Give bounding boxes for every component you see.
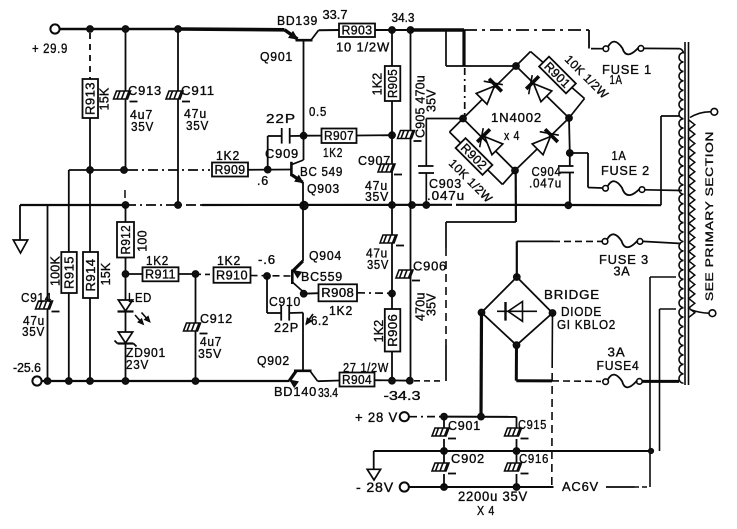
svg-text:GI KBLO2: GI KBLO2 xyxy=(557,317,616,332)
svg-text:BD139: BD139 xyxy=(277,13,318,28)
svg-text:15K: 15K xyxy=(98,87,112,110)
svg-text:22P: 22P xyxy=(274,320,299,335)
svg-text:-.6: -.6 xyxy=(258,253,276,267)
svg-text:33.4: 33.4 xyxy=(318,386,338,400)
svg-text:-25.6: -25.6 xyxy=(13,360,41,375)
svg-text:1K2: 1K2 xyxy=(217,254,241,268)
svg-text:C907: C907 xyxy=(358,153,391,168)
svg-text:C901: C901 xyxy=(448,418,481,433)
svg-text:23V: 23V xyxy=(126,357,149,372)
svg-text:C911: C911 xyxy=(181,83,215,98)
svg-text:1N4002: 1N4002 xyxy=(491,110,542,125)
svg-text:1K2: 1K2 xyxy=(372,320,386,343)
svg-text:R915: R915 xyxy=(62,256,76,289)
svg-text:1K2: 1K2 xyxy=(323,146,343,160)
svg-text:0.5: 0.5 xyxy=(309,105,327,119)
svg-text:1K2: 1K2 xyxy=(329,304,353,318)
svg-text:C914: C914 xyxy=(21,290,52,305)
svg-text:R907: R907 xyxy=(324,129,354,143)
svg-text:1A: 1A xyxy=(612,148,627,163)
svg-text:1K2: 1K2 xyxy=(146,254,169,268)
svg-text:C912: C912 xyxy=(200,311,233,326)
svg-text:33.7: 33.7 xyxy=(323,8,348,22)
svg-text:X 4: X 4 xyxy=(477,503,495,518)
svg-text:3A: 3A xyxy=(614,264,631,279)
svg-text:SEE PRIMARY SECTION: SEE PRIMARY SECTION xyxy=(704,131,716,301)
svg-text:- 28V: - 28V xyxy=(356,480,394,495)
svg-text:R912: R912 xyxy=(119,225,133,255)
svg-text:R905: R905 xyxy=(386,69,400,98)
svg-text:R910: R910 xyxy=(216,268,248,282)
svg-text:Q902: Q902 xyxy=(257,353,290,368)
svg-text:Q901: Q901 xyxy=(260,49,293,64)
svg-text:35V: 35V xyxy=(198,346,222,361)
svg-text:R908: R908 xyxy=(321,286,354,300)
svg-text:35V: 35V xyxy=(425,293,439,316)
svg-text:R909: R909 xyxy=(215,163,246,177)
svg-text:R906: R906 xyxy=(386,314,400,347)
svg-text:R903: R903 xyxy=(342,24,373,38)
svg-text:100K: 100K xyxy=(49,256,63,286)
svg-text:6.2: 6.2 xyxy=(311,314,329,328)
svg-text:1K2: 1K2 xyxy=(216,149,240,163)
svg-text:27 1/2W: 27 1/2W xyxy=(343,361,389,375)
svg-text:C916: C916 xyxy=(519,451,549,466)
svg-text:+ 28 V: + 28 V xyxy=(355,410,398,425)
svg-text:AC6V: AC6V xyxy=(562,479,599,494)
svg-text:BD140: BD140 xyxy=(274,384,317,399)
svg-text:.047u: .047u xyxy=(529,177,562,191)
svg-text:R913: R913 xyxy=(84,82,98,115)
svg-text:35V: 35V xyxy=(425,89,439,112)
svg-text:35V: 35V xyxy=(22,324,45,339)
svg-text:35V: 35V xyxy=(367,257,389,272)
svg-text:2200u 35V: 2200u 35V xyxy=(458,489,528,504)
svg-text:BRIDGE: BRIDGE xyxy=(544,287,600,302)
svg-text:-34.3: -34.3 xyxy=(384,389,421,403)
svg-text:100: 100 xyxy=(136,230,150,251)
svg-text:.047u: .047u xyxy=(427,189,465,203)
svg-text:FUSE 2: FUSE 2 xyxy=(601,163,650,178)
svg-text:1K2: 1K2 xyxy=(371,73,385,96)
svg-text:C906: C906 xyxy=(413,259,447,274)
svg-text:R911: R911 xyxy=(145,268,176,282)
svg-text:FUSE4: FUSE4 xyxy=(597,358,640,373)
svg-text:10 1/2W: 10 1/2W xyxy=(336,41,390,55)
svg-text:+ 29.9: + 29.9 xyxy=(32,41,68,56)
svg-text:22P: 22P xyxy=(266,111,296,126)
svg-text:LED: LED xyxy=(128,290,152,305)
svg-text:35V: 35V xyxy=(365,189,389,204)
svg-text:.6: .6 xyxy=(257,174,269,188)
svg-text:35V: 35V xyxy=(186,118,209,133)
svg-text:C902: C902 xyxy=(451,451,485,466)
svg-text:C913: C913 xyxy=(128,83,162,98)
svg-text:1A: 1A xyxy=(610,72,623,87)
svg-text:x 4: x 4 xyxy=(504,128,520,143)
svg-text:Q903: Q903 xyxy=(307,181,340,196)
svg-text:BC559: BC559 xyxy=(301,269,343,284)
svg-text:15K: 15K xyxy=(99,262,113,285)
svg-text:34.3: 34.3 xyxy=(392,11,415,25)
svg-text:BC 549: BC 549 xyxy=(300,164,343,179)
svg-text:C915: C915 xyxy=(518,417,547,432)
svg-text:C910: C910 xyxy=(269,294,301,309)
svg-text:C909: C909 xyxy=(265,146,299,161)
svg-text:Q904: Q904 xyxy=(309,248,342,263)
svg-text:R914: R914 xyxy=(84,259,98,292)
svg-text:35V: 35V xyxy=(131,119,154,134)
